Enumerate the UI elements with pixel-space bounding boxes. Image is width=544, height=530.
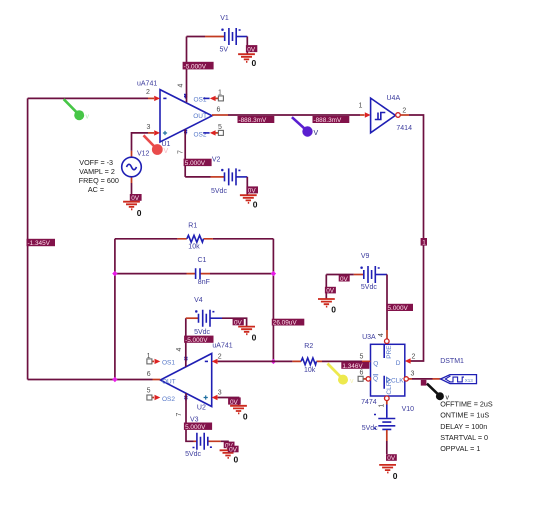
svg-text:FREQ = 600: FREQ = 600 <box>79 176 119 185</box>
ground 0 at V9 <box>318 299 335 307</box>
svg-text:CLR: CLR <box>386 381 393 394</box>
U2 OS2 pin <box>147 395 175 403</box>
wire V9 left down to ground <box>325 275 327 299</box>
svg-text:V1: V1 <box>220 15 229 22</box>
inverter U4A 7414 <box>371 98 401 133</box>
svg-text:CLK: CLK <box>391 377 404 384</box>
svg-text:OUT: OUT <box>162 378 176 385</box>
voltage probe yellow on Q net <box>328 364 355 386</box>
svg-text:V10: V10 <box>402 406 415 413</box>
U3A label CLR rotated <box>386 381 393 394</box>
wire V4 right to ground <box>222 318 247 326</box>
svg-text:3: 3 <box>218 390 222 397</box>
digital state box on CLK wire <box>421 380 427 386</box>
svg-text:OFFTIME = 2uS: OFFTIME = 2uS <box>440 400 493 409</box>
svg-text:5Vdc: 5Vdc <box>194 329 210 336</box>
svg-text:V9: V9 <box>361 253 370 260</box>
U2 OS1 pin <box>147 359 175 367</box>
svg-text:R2: R2 <box>304 343 313 350</box>
U3A PRE bubble pin4 <box>385 339 390 344</box>
svg-text:7: 7 <box>176 413 183 417</box>
U1 OS1 pin <box>194 96 224 104</box>
svg-text:1: 1 <box>218 89 222 96</box>
wire U2 pin2 net to R2 <box>218 360 292 362</box>
resistor R1 <box>177 235 213 242</box>
svg-text:v: v <box>86 113 90 120</box>
wire V3 right to ground <box>221 441 228 450</box>
svg-text:4: 4 <box>378 333 385 337</box>
red lead to PRE bubble <box>386 330 388 339</box>
svg-text:-5.000V: -5.000V <box>184 63 207 70</box>
ground 0 at V3 <box>220 450 237 458</box>
svg-text:5Vdc: 5Vdc <box>362 425 378 432</box>
svg-text:OS2: OS2 <box>162 396 175 403</box>
wire U3A CLR to V10 <box>386 401 388 418</box>
svg-text:0: 0 <box>243 412 248 422</box>
wire V12 bottom <box>131 183 133 195</box>
svg-text:ONTIME = 1uS: ONTIME = 1uS <box>440 411 489 420</box>
svg-text:STARTVAL = 0: STARTVAL = 0 <box>440 433 488 442</box>
node 5.000V bias label at V9 <box>386 304 413 312</box>
svg-text:uA741: uA741 <box>137 81 157 88</box>
svg-text:-5.000V: -5.000V <box>185 337 208 344</box>
svg-text:Q: Q <box>373 376 378 383</box>
U3A CLK pin3 bubble <box>404 377 408 381</box>
wire V9 right down to U3A PRE <box>386 275 388 331</box>
wire U2 pin3 to ground <box>218 398 239 406</box>
U1 pin2 red lead and arrow <box>148 96 160 101</box>
U2 V- power pin marker <box>184 397 187 401</box>
svg-text:7: 7 <box>178 150 185 154</box>
svg-text:5: 5 <box>360 353 364 360</box>
wire V10 down to ground <box>386 441 388 454</box>
node 5.000V bias label at U2 pin7 <box>184 423 212 432</box>
battery V9 <box>354 266 387 283</box>
op-amp U2 triangle mirrored <box>160 354 211 407</box>
battery V1 <box>205 28 247 45</box>
svg-text:V: V <box>314 130 319 137</box>
junction C1 right <box>271 271 276 276</box>
battery V2 <box>211 168 248 185</box>
U3A CLR bubble pin1 <box>385 396 390 401</box>
node 0V label at V4 <box>233 319 244 327</box>
U2 inverting input minus sign <box>205 360 208 362</box>
node 5.000V bias label at U1 pin7 <box>184 159 212 168</box>
node 0V label at V10 <box>386 454 397 462</box>
node -888.3mV bias label right <box>313 116 350 124</box>
svg-text:0: 0 <box>234 455 239 465</box>
svg-text:0: 0 <box>393 471 398 481</box>
svg-text:0: 0 <box>253 200 258 210</box>
svg-text:OS1: OS1 <box>194 96 207 103</box>
svg-text:5Vdc: 5Vdc <box>185 451 201 458</box>
wire R1 C1 right vertical <box>272 239 274 362</box>
U3A Qbar pin6 bubble and no-connect square <box>358 376 370 381</box>
wire left vertical feedback <box>27 98 29 379</box>
svg-text:6: 6 <box>360 370 364 377</box>
wire R1 top horizontal <box>115 238 274 240</box>
svg-text:26.09uV: 26.09uV <box>273 320 298 327</box>
svg-text:7414: 7414 <box>396 125 412 132</box>
svg-text:-888.3mV: -888.3mV <box>314 117 342 124</box>
svg-text:U2: U2 <box>197 404 206 411</box>
svg-text:6: 6 <box>147 371 151 378</box>
node 0V label at V3 first <box>224 442 235 450</box>
U2 non-inverting input plus sign <box>204 395 208 399</box>
junction R2 / right vertical <box>271 359 276 364</box>
svg-text:5V: 5V <box>220 47 229 54</box>
svg-text:0V: 0V <box>234 320 243 327</box>
svg-text:0V: 0V <box>247 46 256 53</box>
svg-text:5Vdc: 5Vdc <box>211 188 227 195</box>
svg-text:V3: V3 <box>190 417 199 424</box>
U3A Q pin5 red lead <box>362 360 371 362</box>
wire U1 pin7 vertical <box>184 129 186 177</box>
ground 0 at V10 <box>379 465 396 473</box>
battery V10 <box>374 415 395 442</box>
svg-text:X13: X13 <box>465 378 474 383</box>
svg-text:V: V <box>164 148 169 155</box>
wire U1 OUT to U4A input <box>228 114 360 116</box>
node 0V label at V9 ground <box>325 287 336 295</box>
svg-text:0V: 0V <box>248 188 257 195</box>
svg-text:5: 5 <box>147 387 151 394</box>
svg-text:U3A: U3A <box>362 334 376 341</box>
svg-text:5: 5 <box>218 124 222 131</box>
wire V9 left segment <box>326 274 354 276</box>
U1 OUT pin 6 <box>193 113 228 120</box>
svg-text:5.000V: 5.000V <box>185 160 206 167</box>
svg-text:1: 1 <box>379 404 386 408</box>
voltage probe red on U1 pin3 net <box>144 135 169 155</box>
node -1.345V bias label <box>27 239 56 247</box>
svg-text:AC =: AC = <box>88 185 104 194</box>
node 0V label on V9 wire <box>339 275 350 283</box>
ground 0 at V2 <box>240 195 257 203</box>
node 0V label at V1 <box>246 45 257 53</box>
node -5.000V bias label at U2 pin4 <box>184 336 213 344</box>
voltage probe black on CLK net <box>427 384 450 402</box>
svg-text:0: 0 <box>252 58 257 68</box>
svg-text:V4: V4 <box>194 297 203 304</box>
svg-text:PRE: PRE <box>386 345 393 359</box>
svg-text:R1: R1 <box>188 222 197 229</box>
svg-text:Q: Q <box>373 360 378 367</box>
ground 0 at V1 <box>238 54 255 62</box>
wire U1 pin7 to V2 <box>185 176 210 178</box>
battery V3 <box>193 433 221 450</box>
U3A label Qbar <box>373 375 378 383</box>
svg-text:V12: V12 <box>137 150 150 157</box>
wire C1 horizontal <box>115 273 274 275</box>
junction U2 OUT / left vertical <box>112 377 117 382</box>
wire CLK to DSTM1 <box>409 378 441 380</box>
wire U2 pin7 down to V3 <box>186 393 194 441</box>
svg-text:1: 1 <box>422 240 426 247</box>
digital state 1 box on wire <box>421 238 427 247</box>
U1 V+ power pin marker <box>184 95 187 99</box>
svg-text:0: 0 <box>252 332 257 342</box>
svg-text:v: v <box>350 378 354 385</box>
svg-text:2: 2 <box>402 108 406 115</box>
svg-text:OS1: OS1 <box>162 360 175 367</box>
node 1.346V bias label <box>341 362 369 370</box>
svg-text:2: 2 <box>412 353 416 360</box>
battery V4 <box>186 310 222 327</box>
wire V2 minus down <box>246 177 248 195</box>
svg-text:0V: 0V <box>230 399 239 406</box>
flip-flop U3A 7474 body <box>371 344 405 396</box>
wire V4 to U2 pin4 vertical <box>185 318 187 367</box>
svg-text:8nF: 8nF <box>198 279 210 286</box>
svg-text:DELAY = 100n: DELAY = 100n <box>440 422 487 431</box>
svg-text:5.000V: 5.000V <box>388 305 409 312</box>
U2 OUT pin red lead <box>153 378 176 385</box>
svg-text:0V: 0V <box>326 288 335 295</box>
svg-text:-888.3mV: -888.3mV <box>239 117 267 124</box>
svg-text:0: 0 <box>137 208 142 218</box>
wire V12 to U1 pin3 <box>132 133 149 151</box>
node 0V label at V12 <box>130 194 142 202</box>
svg-text:3: 3 <box>147 124 151 131</box>
svg-text:3: 3 <box>411 371 415 378</box>
U2 pin2 red lead and arrow <box>212 359 218 364</box>
wire U1 pin4 vertical <box>186 37 188 103</box>
svg-text:6: 6 <box>217 107 221 114</box>
svg-text:10k: 10k <box>188 244 200 251</box>
voltage probe green on U1 pin2 net <box>64 99 90 120</box>
svg-text:1: 1 <box>359 103 363 110</box>
U2 pin3 red lead and arrow <box>212 395 218 400</box>
svg-text:-1.345V: -1.345V <box>28 240 51 247</box>
svg-text:10k: 10k <box>304 367 316 374</box>
wire net U1 pin2 top horizontal <box>28 97 148 99</box>
svg-text:5.000V: 5.000V <box>185 424 206 431</box>
resistor R2 <box>292 358 322 365</box>
U4A input red lead and arrow <box>360 112 371 117</box>
svg-text:4: 4 <box>176 348 183 352</box>
svg-text:uA741: uA741 <box>212 342 232 349</box>
node 0V label at V3 second <box>228 446 239 454</box>
ground 0 at V12 <box>123 202 140 210</box>
op-amp U1 triangle <box>160 90 212 142</box>
node 26.09uV bias label <box>272 319 305 327</box>
svg-text:VAMPL = 2: VAMPL = 2 <box>79 167 115 176</box>
svg-text:VOFF = -3: VOFF = -3 <box>79 158 113 167</box>
wire U2 OUT bottom horizontal <box>28 379 153 381</box>
svg-text:V2: V2 <box>212 157 221 164</box>
U1 V- power pin marker <box>184 131 187 135</box>
node 0V label at U2 pin3 <box>228 397 241 405</box>
svg-text:2: 2 <box>146 89 150 96</box>
U2 V+ power pin marker <box>184 358 187 362</box>
wire U4A output to D pin of U3A <box>400 115 423 364</box>
svg-text:0: 0 <box>331 305 336 315</box>
node 0V label at V2 <box>246 186 258 194</box>
svg-text:DSTM1: DSTM1 <box>440 358 464 365</box>
svg-text:1.346V: 1.346V <box>342 363 363 370</box>
ground 0 at U2 pin3 <box>230 406 247 414</box>
junction C1 left <box>112 271 117 276</box>
svg-text:4: 4 <box>178 84 185 88</box>
U1 OS2 pin <box>194 130 224 138</box>
node -5.000V bias label at U1 pin4 <box>183 62 214 71</box>
sine source V12 <box>122 151 142 183</box>
svg-text:0V: 0V <box>387 455 396 462</box>
svg-text:D: D <box>396 360 401 367</box>
U1 inverting input minus sign <box>163 97 166 99</box>
U1 non-inverting input plus sign <box>163 131 167 135</box>
wire R1 C1 left vertical <box>114 239 116 380</box>
U1 pin3 red lead and arrow <box>148 130 160 135</box>
ground 0 at V4 <box>238 327 255 335</box>
digital stimulus DSTM1 <box>441 375 477 384</box>
svg-text:OPPVAL = 1: OPPVAL = 1 <box>440 444 480 453</box>
svg-text:1: 1 <box>147 353 151 360</box>
svg-text:5Vdc: 5Vdc <box>361 284 377 291</box>
svg-text:OUT: OUT <box>193 113 207 120</box>
svg-text:0V: 0V <box>229 447 238 454</box>
voltage probe purple on OUT net <box>292 117 319 137</box>
svg-text:U4A: U4A <box>387 95 401 102</box>
svg-text:0V: 0V <box>340 276 349 283</box>
svg-text:7474: 7474 <box>361 399 377 406</box>
U3A label PRE rotated <box>386 345 393 359</box>
svg-text:2: 2 <box>218 354 222 361</box>
node -888.3mV bias label left <box>238 116 275 124</box>
wire R2 to U3A pin5 <box>322 360 362 362</box>
wire V1 minus down <box>246 37 248 55</box>
wire V1 top left to U1 pin4 <box>187 36 206 38</box>
svg-text:C1: C1 <box>198 257 207 264</box>
capacitor C1 <box>187 268 211 279</box>
